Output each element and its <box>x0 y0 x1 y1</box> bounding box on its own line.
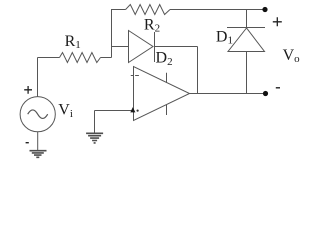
svg-text:Vi: Vi <box>58 102 73 120</box>
svg-text:D2: D2 <box>156 50 173 68</box>
svg-text:Vo: Vo <box>283 47 301 65</box>
svg-text:R2: R2 <box>144 16 160 34</box>
svg-text:D1: D1 <box>216 28 233 46</box>
svg-text:R1: R1 <box>65 33 81 51</box>
